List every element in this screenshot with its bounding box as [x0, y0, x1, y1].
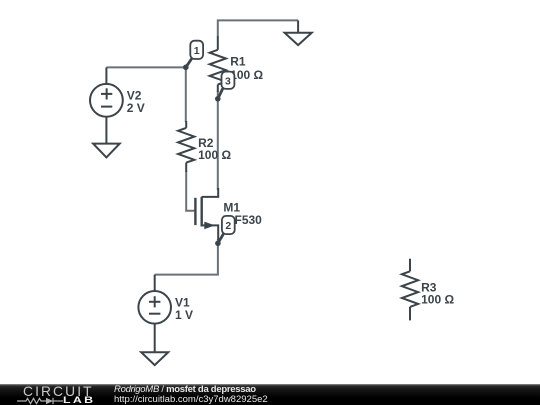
- wire from node 1 down to R2: [185, 67, 187, 122]
- label M1 IRF530: [223, 201, 263, 228]
- CircuitLab logo CIRCUIT: [23, 385, 94, 398]
- svg-text:3: 3: [225, 75, 231, 87]
- label R1 100 Ohm: [230, 54, 263, 82]
- svg-text:1 V: 1 V: [175, 308, 193, 322]
- ground top right: [285, 20, 312, 45]
- resistor R2: [178, 121, 194, 172]
- voltage source V1: [138, 275, 171, 353]
- wire from R2 bottom to M1 gate: [186, 171, 194, 211]
- label V1 1 V: [175, 295, 193, 322]
- footer bar: [0, 384, 540, 405]
- wire from R1 bottom through node 3 to M1 drain: [217, 91, 219, 190]
- ground below V2: [93, 144, 120, 158]
- node 3: [215, 72, 234, 102]
- node 1: [183, 41, 203, 70]
- svg-text:1: 1: [194, 45, 200, 57]
- mosfet M1: [195, 188, 218, 240]
- resistor R1: [210, 36, 226, 92]
- label V2 2 V: [127, 88, 145, 115]
- resistor R3: [402, 259, 418, 321]
- footer credit line: [114, 384, 256, 395]
- CircuitLab logo LAB: [63, 396, 95, 405]
- svg-text:100 Ω: 100 Ω: [198, 148, 231, 162]
- svg-text:2: 2: [225, 220, 231, 232]
- wire from V2 top terminal to node 1: [106, 66, 185, 68]
- voltage source V2: [90, 67, 123, 143]
- footer url line: [114, 394, 268, 405]
- svg-text:2 V: 2 V: [127, 101, 145, 115]
- wire from M1 source / node 2 to V1 top terminal: [155, 239, 218, 275]
- svg-text:100 Ω: 100 Ω: [421, 293, 454, 307]
- CircuitLab logo mini schematic: [17, 397, 63, 405]
- wire from R1 top to top-right ground: [218, 20, 298, 36]
- label R2 100 Ohm: [198, 136, 231, 162]
- node 2: [215, 216, 235, 246]
- label R3 100 Ohm: [421, 281, 454, 307]
- svg-text:R1: R1: [230, 54, 246, 68]
- ground below V1: [141, 352, 168, 365]
